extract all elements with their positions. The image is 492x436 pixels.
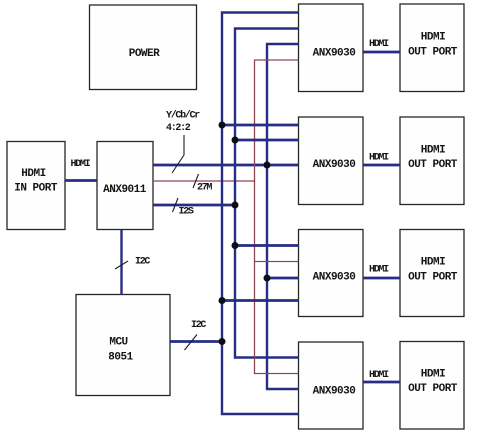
svg-text:4:2:2: 4:2:2 bbox=[166, 123, 191, 134]
svg-text:HDMI: HDMI bbox=[71, 159, 91, 170]
junction dot I2S row2 bbox=[232, 137, 239, 144]
svg-text:OUT PORT: OUT PORT bbox=[408, 47, 458, 59]
block ANX9011 U1 bbox=[97, 142, 153, 230]
svg-text:HDMI: HDMI bbox=[421, 257, 445, 269]
wire video branch row3 bbox=[267, 277, 299, 280]
block MCU 8051 bbox=[76, 295, 170, 396]
svg-text:8051: 8051 bbox=[108, 352, 133, 364]
svg-text:HDMI: HDMI bbox=[421, 369, 445, 381]
wire I2C MCU to bus bbox=[170, 340, 223, 343]
wire I2S (ANX9011 to I2S bus) bbox=[153, 204, 235, 207]
wire HDMI out row1 bbox=[363, 51, 400, 54]
svg-text:POWER: POWER bbox=[129, 48, 160, 60]
svg-text:Y/Cb/Cr: Y/Cb/Cr bbox=[166, 110, 200, 122]
svg-text:IN PORT: IN PORT bbox=[14, 183, 58, 195]
leader line Y/Cb/Cr bbox=[172, 135, 184, 173]
wire I2C branch row2 bbox=[222, 124, 299, 127]
svg-text:I2C: I2C bbox=[191, 320, 206, 331]
junction dot video row3 bbox=[264, 275, 271, 282]
svg-text:OUT PORT: OUT PORT bbox=[408, 272, 458, 284]
wire video Y/Cb/Cr (ANX9011 to ANX9030 row2) bbox=[153, 164, 299, 167]
bus I2S vertical x=235 bbox=[235, 29, 299, 358]
wire HDMI out row4 bbox=[363, 381, 400, 384]
block HDMI OUT PORT row4 bbox=[400, 342, 464, 430]
svg-text:I2S: I2S bbox=[179, 207, 194, 218]
svg-text:HDMI: HDMI bbox=[21, 168, 45, 180]
svg-text:ANX9030: ANX9030 bbox=[313, 272, 356, 284]
block HDMI OUT PORT row3 bbox=[400, 230, 464, 317]
svg-text:ANX9011: ANX9011 bbox=[103, 184, 147, 196]
block ANX9030 row4 bbox=[299, 342, 364, 429]
junction dot video row2 bbox=[264, 162, 271, 169]
svg-text:HDMI: HDMI bbox=[369, 370, 389, 381]
block POWER bbox=[90, 5, 197, 90]
wire I2C vertical (ANX9011 to MCU) bbox=[120, 230, 122, 295]
wire HDMI in (HDMI IN PORT to ANX9011) bbox=[65, 179, 97, 182]
svg-text:HDMI: HDMI bbox=[421, 145, 445, 157]
bus I2C vertical x=222 bbox=[222, 13, 299, 415]
junction dot I2C row2 bbox=[219, 122, 226, 129]
slash 27M bus mark bbox=[193, 174, 199, 188]
svg-text:ANX9030: ANX9030 bbox=[313, 159, 356, 171]
junction dot I2S source bbox=[232, 202, 239, 209]
svg-text:ANX9030: ANX9030 bbox=[313, 48, 356, 60]
junction dot I2C MCU bbox=[219, 338, 226, 345]
svg-text:OUT PORT: OUT PORT bbox=[408, 383, 458, 395]
block HDMI OUT PORT row2 bbox=[400, 117, 464, 205]
wire HDMI out row3 bbox=[363, 277, 400, 280]
slash I2C bus mark (MCU wire) bbox=[185, 335, 198, 351]
svg-text:OUT PORT: OUT PORT bbox=[408, 159, 458, 171]
slash I2S bus mark bbox=[173, 198, 179, 212]
svg-text:HDMI: HDMI bbox=[369, 39, 389, 50]
block HDMI OUT PORT row1 bbox=[400, 4, 464, 92]
junction dot I2C row3 bbox=[219, 297, 226, 304]
block ANX9030 row2 bbox=[299, 117, 364, 205]
block HDMI IN PORT bbox=[7, 142, 65, 230]
svg-text:MCU: MCU bbox=[109, 337, 127, 349]
bus 27M red vertical x=254.5 bbox=[255, 60, 299, 374]
wire I2C branch row3 bbox=[222, 299, 299, 302]
block ANX9030 row1 bbox=[299, 4, 364, 92]
svg-text:I2C: I2C bbox=[135, 257, 150, 268]
wire 27M branch row3 bbox=[255, 261, 299, 263]
wire HDMI out row2 bbox=[363, 164, 400, 167]
junction dot I2S row3 bbox=[232, 242, 239, 249]
bus video vertical x=267 bbox=[267, 44, 299, 389]
wire 27M red (ANX9011 to red bus) bbox=[153, 180, 255, 182]
svg-text:ANX9030: ANX9030 bbox=[313, 386, 356, 398]
wire I2S branch row3 bbox=[235, 244, 299, 247]
svg-text:HDMI: HDMI bbox=[369, 153, 389, 164]
svg-text:HDMI: HDMI bbox=[421, 32, 445, 44]
block ANX9030 row3 bbox=[299, 230, 364, 317]
slash I2C bus mark bbox=[115, 261, 128, 269]
svg-text:HDMI: HDMI bbox=[369, 265, 389, 276]
svg-text:27M: 27M bbox=[197, 183, 212, 194]
wire I2S branch row2 bbox=[235, 139, 299, 142]
